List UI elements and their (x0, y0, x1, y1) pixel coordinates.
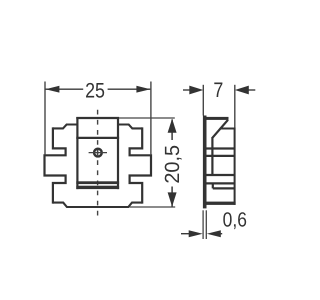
side view right edge (234, 128, 236, 205)
bracket bottom cap band 1 (76, 181, 119, 184)
hole crosshair vertical dash (97, 150, 99, 155)
dim 20,5 arrow down (168, 192, 177, 206)
dim 7 left tail (183, 89, 191, 91)
side view upper right step (220, 128, 235, 130)
dim 20,5 arrow up (168, 119, 177, 133)
dim 7 arrow left (points right) (189, 86, 203, 95)
dim 0,6 extension line right (205, 210, 207, 239)
svg-text:20,5: 20,5 (161, 145, 184, 184)
dim 7 arrow right (points left) (235, 86, 249, 95)
dim 7 extension line left (202, 85, 204, 116)
side view rung at tab bottom (207, 174, 235, 176)
side view small vertical step (212, 183, 214, 188)
plate outline right side: notch, tab, notch (130, 127, 151, 203)
hole crosshair horizontal (89, 152, 107, 154)
dim 25 extension line left (44, 82, 46, 155)
dim 25 line right segment (108, 88, 151, 90)
svg-text:25: 25 (85, 79, 105, 102)
side view lower inner rung (213, 187, 235, 189)
svg-text:7: 7 (213, 79, 223, 102)
dim 0,6 right tail (220, 233, 222, 235)
svg-text:0,6: 0,6 (223, 208, 247, 231)
dim 25 arrow left (45, 86, 59, 93)
side view rung at tab top (207, 155, 235, 157)
dim 20,5 extension line bottom (130, 206, 176, 208)
plate outline left side: notch, tab, notch (45, 127, 66, 203)
dim 0,6 arrow left (points right) (189, 230, 203, 237)
side view inner vertical wall (211, 137, 213, 175)
hole circle (94, 149, 102, 157)
bracket rectangle sides (top view) (76, 117, 78, 189)
dim 25 arrow right (136, 86, 150, 93)
side view rung at notch top (207, 147, 235, 149)
bracket fold line (76, 137, 119, 139)
bracket top edge (76, 117, 119, 119)
dim 0,6 extension line left (202, 210, 204, 239)
dim 7 extension line right (234, 85, 236, 128)
dim 20,5 line lower segment (171, 187, 173, 207)
dim 0,6 arrow right (points left) (207, 230, 221, 237)
plate outline top-right edge (118, 125, 142, 129)
dim 25 extension line right (150, 82, 152, 156)
plate outline bottom edge with chamfers (53, 203, 142, 207)
dim 7 right tail (248, 89, 256, 91)
side view rung at notch bottom (207, 182, 235, 184)
side view piezo plate (edge-on band) (203, 116, 207, 209)
side view bracket top flange (207, 117, 229, 120)
plate outline top-left edge (53, 125, 78, 129)
side view diagonal bend (212, 120, 228, 138)
dim 20,5 line upper segment (171, 120, 173, 141)
side view bottom foot band (207, 202, 236, 205)
dim 0,6 left tail (181, 233, 190, 235)
dim 20,5 extension line top (119, 117, 175, 119)
centerline (vertical dashed, top view) (97, 110, 99, 216)
bracket bottom cap band 2 (76, 186, 119, 189)
dim 25 line left segment (45, 88, 83, 90)
